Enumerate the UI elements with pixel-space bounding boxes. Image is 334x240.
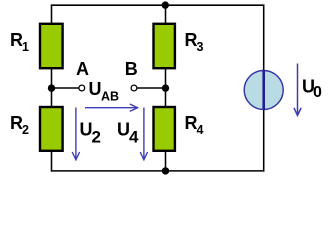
arrow U4 [140, 108, 147, 160]
svg-text:R2: R2 [10, 113, 29, 137]
wire left branch top (node to R1) [51, 5, 53, 24]
resistor R1 [40, 24, 63, 68]
wire R2 bottom to bottom rail [51, 151, 53, 171]
wire node A to R2 [51, 88, 53, 107]
svg-text:U4: U4 [117, 120, 139, 147]
svg-text:A: A [76, 59, 89, 79]
arrow UAB [85, 104, 138, 111]
wire node B stub to terminal B [137, 87, 166, 89]
wire node B to R4 [165, 88, 167, 107]
resistor R3 [154, 24, 175, 68]
svg-text:R4: R4 [185, 113, 204, 137]
wire R1 bottom to node A junction [51, 68, 53, 88]
terminal B open circle [131, 85, 137, 91]
svg-text:U2: U2 [80, 120, 101, 147]
wire node A stub to terminal A [52, 87, 79, 89]
terminal A open circle [79, 85, 85, 91]
wire R3 bottom to node B junction [165, 68, 167, 88]
arrow U2 [72, 108, 79, 160]
svg-text:R3: R3 [185, 30, 204, 54]
arrow U0 [294, 64, 301, 116]
junction node A [48, 84, 55, 91]
junction bottom of right branch [162, 167, 169, 174]
resistor R2 [40, 107, 63, 151]
svg-text:UAB: UAB [89, 79, 120, 104]
wire right vertical (source branch) [263, 5, 265, 172]
junction top of right branch [162, 1, 169, 8]
svg-text:U0: U0 [302, 77, 322, 101]
wire R4 bottom to bottom rail [165, 151, 167, 171]
wire top horizontal [51, 4, 265, 6]
svg-text:R1: R1 [10, 30, 29, 54]
svg-text:B: B [125, 59, 138, 79]
junction node B [162, 84, 169, 91]
resistor R4 [154, 107, 175, 151]
voltage source U0 [244, 70, 283, 110]
wire bottom horizontal [51, 170, 265, 172]
wire top node to R3 [165, 5, 167, 24]
